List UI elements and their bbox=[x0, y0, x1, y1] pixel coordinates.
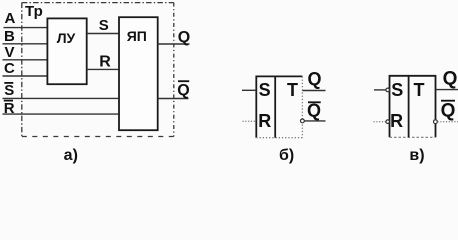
svg-text:B: B bbox=[4, 28, 15, 45]
svg-text:а): а) bbox=[64, 147, 78, 164]
RS-trigger box (в) bbox=[390, 76, 436, 138]
output wire Q-bar bbox=[158, 98, 189, 100]
output wire Q-bar (б) bbox=[305, 120, 326, 122]
inversion bubble input R (в) bbox=[386, 120, 390, 124]
input label S-bar bbox=[4, 82, 14, 99]
svg-text:ЛУ: ЛУ bbox=[57, 30, 76, 46]
svg-text:Q: Q bbox=[178, 29, 190, 46]
svg-text:Тр: Тр bbox=[25, 3, 43, 20]
svg-text:Q: Q bbox=[307, 69, 321, 89]
wire input B bbox=[3, 43, 48, 45]
svg-text:T: T bbox=[414, 80, 425, 100]
svg-text:R: R bbox=[258, 111, 271, 131]
RS-trigger box (б) bbox=[256, 76, 302, 137]
output wire Q (б) bbox=[302, 90, 325, 92]
trigger Тр boundary (dash-dot frame) bbox=[22, 3, 174, 137]
wire input S-bar bbox=[3, 97, 120, 99]
block ЯП (memory cell) bbox=[119, 17, 158, 130]
wire S (ЛУ to ЯП) bbox=[87, 33, 119, 35]
wire input S (в) bbox=[374, 89, 386, 91]
inversion bubble Q-bar (в) bbox=[434, 120, 438, 124]
output label Q-bar (в) bbox=[441, 101, 456, 122]
svg-text:Q: Q bbox=[177, 82, 189, 99]
input label R-bar bbox=[4, 100, 15, 117]
svg-text:Q: Q bbox=[441, 101, 456, 122]
svg-text:S: S bbox=[99, 17, 109, 34]
wire input C bbox=[3, 75, 48, 77]
output label Q-bar (б) bbox=[307, 100, 321, 120]
block ЛУ (logic unit) bbox=[47, 18, 86, 84]
output wire Q-bar dotted (в) bbox=[438, 121, 458, 123]
wire input R dotted (б) bbox=[243, 120, 257, 122]
svg-text:Q: Q bbox=[307, 100, 321, 120]
svg-text:S: S bbox=[391, 80, 403, 100]
inversion bubble Q-bar (б) bbox=[301, 119, 305, 123]
svg-text:S: S bbox=[4, 82, 14, 99]
wire input A bbox=[4, 27, 48, 29]
svg-text:ЯП: ЯП bbox=[127, 28, 147, 44]
svg-text:T: T bbox=[287, 80, 298, 100]
inversion bubble input S (в) bbox=[386, 88, 390, 92]
wire input S (б) bbox=[242, 89, 256, 91]
wire R (ЛУ to ЯП) bbox=[87, 68, 119, 70]
output wire Q bbox=[158, 43, 190, 45]
svg-text:в): в) bbox=[409, 147, 424, 164]
output label Q-bar bbox=[177, 81, 189, 99]
svg-text:V: V bbox=[5, 44, 15, 61]
svg-text:R: R bbox=[99, 54, 111, 71]
wire input R-bar bbox=[3, 113, 120, 115]
svg-text:C: C bbox=[4, 60, 15, 77]
svg-text:S: S bbox=[259, 80, 271, 100]
svg-text:б): б) bbox=[279, 147, 294, 164]
wire input R dotted (в) bbox=[374, 121, 386, 123]
output wire Q (в) bbox=[436, 89, 458, 91]
wire input V bbox=[3, 59, 48, 61]
svg-text:Q: Q bbox=[443, 68, 458, 89]
svg-text:A: A bbox=[5, 10, 16, 27]
svg-text:R: R bbox=[390, 111, 403, 131]
